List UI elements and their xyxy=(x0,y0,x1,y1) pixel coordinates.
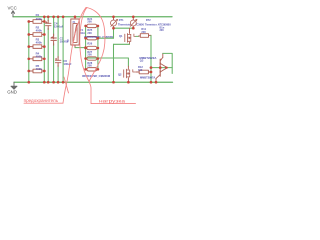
capacitor C3 xyxy=(51,34,70,45)
wire node to bottom rail xyxy=(113,28,115,82)
annotation fuse underline xyxy=(24,102,63,104)
resistor R27 xyxy=(86,50,98,60)
svg-text:400k: 400k xyxy=(36,17,43,21)
transistor Q4 xyxy=(156,68,167,83)
svg-text:R26: R26 xyxy=(87,42,92,46)
resistor R24 xyxy=(86,17,98,28)
junction dots right area xyxy=(112,27,168,74)
svg-text:Q2: Q2 xyxy=(118,72,122,76)
svg-text:GND: GND xyxy=(7,90,17,95)
wire capacitor branch C6 xyxy=(57,17,59,82)
wire thermistor bottoms xyxy=(114,27,134,29)
svg-text:400k: 400k xyxy=(36,67,43,71)
annotation load leader xyxy=(89,82,136,104)
svg-text:400k: 400k xyxy=(36,55,43,59)
wire Q1 gate to R11 xyxy=(136,35,139,37)
wire stack to thermistor node xyxy=(98,37,114,39)
capacitor C4 xyxy=(46,20,64,30)
thermistor RT2 xyxy=(130,17,171,32)
resistor R3 xyxy=(29,38,45,49)
resistor R2 xyxy=(29,25,45,36)
annotation crossing stroke xyxy=(64,77,69,93)
svg-text:200: 200 xyxy=(87,20,92,24)
svg-text:RT2: RT2 xyxy=(146,19,151,22)
svg-text:нагрузка: нагрузка xyxy=(99,98,126,103)
wire plain branch xyxy=(62,17,64,82)
wire driver input node xyxy=(151,67,172,69)
svg-text:Thermistor_NTC3950BU: Thermistor_NTC3950BU xyxy=(145,22,171,26)
svg-text:MMBT2907A: MMBT2907A xyxy=(140,75,155,79)
wire left bus (node A) xyxy=(28,22,30,83)
wire capacitor branch C4 xyxy=(47,17,49,82)
resistor R12 xyxy=(137,65,152,74)
wire fuse to stack xyxy=(75,47,86,49)
ground symbol xyxy=(11,82,17,89)
transistor Q2 mosfet xyxy=(118,66,137,82)
wire Q1 source left xyxy=(114,43,130,45)
svg-text:200: 200 xyxy=(160,29,165,32)
wire Q3 collector loop xyxy=(163,53,172,73)
transistor Q3 xyxy=(160,53,166,67)
wire VCC top rail xyxy=(13,16,172,18)
svg-text:200: 200 xyxy=(87,64,92,68)
wire right bus of left resistor column xyxy=(43,17,45,82)
wire GND bottom rail xyxy=(14,81,173,83)
resistor R26 xyxy=(86,42,98,50)
VCC power symbol xyxy=(11,11,14,17)
svg-text:100: 100 xyxy=(138,68,143,72)
annotation ellipse inner stroke xyxy=(80,8,89,82)
resistor R11 xyxy=(139,27,151,37)
junction dots stack xyxy=(84,25,99,71)
svg-text:~F: ~F xyxy=(66,39,70,43)
wire stack right bus xyxy=(97,26,99,69)
junction dots left column xyxy=(27,20,45,72)
svg-text:200: 200 xyxy=(141,30,146,34)
thermistor RT1 xyxy=(111,17,145,28)
annotation ellipse right stroke xyxy=(86,8,105,82)
resistor R1 xyxy=(29,13,45,23)
resistor R5 xyxy=(29,64,45,73)
svg-text:Q3: Q3 xyxy=(140,59,144,63)
resistor R28 xyxy=(86,61,98,71)
wire capacitor branch C3 xyxy=(53,17,55,82)
svg-text:200: 200 xyxy=(87,53,92,57)
transistor Q1 mosfet xyxy=(119,28,136,44)
svg-text:предохранитель: предохранитель xyxy=(24,98,59,103)
svg-text:400k: 400k xyxy=(36,41,43,45)
wire stack to Q2 drain xyxy=(86,58,129,66)
svg-text:400k: 400k xyxy=(36,28,43,32)
annotation ellipse left outer stroke xyxy=(63,8,86,104)
svg-text:2200uF: 2200uF xyxy=(54,25,64,29)
wire R11 down to driver xyxy=(150,35,152,82)
fuse F1 xyxy=(66,17,85,48)
wire stack left bus xyxy=(85,26,87,69)
svg-text:Q1: Q1 xyxy=(119,34,123,38)
junction dots top rail xyxy=(43,15,135,18)
junction dots bottom rail xyxy=(27,81,157,84)
capacitor C6 xyxy=(55,57,71,67)
resistor R25 xyxy=(86,28,98,40)
svg-text:100uF: 100uF xyxy=(63,62,71,66)
resistor R4 xyxy=(29,52,45,61)
svg-text:RT1: RT1 xyxy=(119,19,124,22)
svg-text:VCC: VCC xyxy=(8,5,17,10)
